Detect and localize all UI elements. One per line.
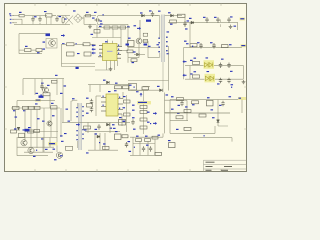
resistor R2 (25, 46, 32, 52)
wire sb bottom (88, 149, 118, 151)
cap C31 (86, 98, 93, 107)
wire sb v1 (95, 133, 105, 150)
diode D9 (157, 86, 162, 92)
blue llc mid (33, 150, 37, 157)
diode D17 (95, 133, 100, 138)
title block text Size/Number (206, 166, 233, 167)
ground primary minus (88, 24, 92, 28)
resistor R45 (184, 127, 191, 130)
cap CX0 (31, 16, 34, 25)
wire lm link (162, 133, 164, 137)
wire E line (14, 22, 17, 24)
resistor R54 (123, 96, 130, 103)
cap C24 (219, 59, 224, 68)
resistor R33 (34, 129, 40, 132)
resistor R11 (112, 26, 130, 29)
wire lm top (130, 137, 163, 143)
cap CX1 (34, 16, 42, 22)
cap C23 (210, 42, 216, 48)
resistor R36 (103, 143, 110, 149)
bridge rectifier BD1 (73, 10, 82, 22)
wire lm bottom (130, 154, 160, 156)
wire t2 top (72, 100, 77, 101)
label br (204, 135, 205, 136)
pin 1 arrow (92, 44, 103, 47)
label U3 (108, 90, 117, 92)
resistor R30 (51, 103, 58, 109)
wire ic2 left bus (96, 96, 101, 116)
zener D18 (212, 117, 228, 126)
wire lr rail top (166, 94, 245, 133)
cap C32 (86, 107, 93, 114)
resistor R49 (155, 152, 162, 155)
wire out vert x190 (189, 66, 191, 80)
varistor RV1 (62, 16, 67, 25)
resistor R5 (52, 80, 67, 86)
wire IC1 bottom pins (107, 61, 115, 68)
bottom AC rail (14, 23, 70, 25)
resistor R42 (192, 101, 199, 106)
resistor R32 (28, 127, 34, 133)
cap C20 (214, 17, 220, 23)
wire out rail 2 (184, 44, 247, 79)
cap C6 (91, 30, 101, 35)
wire llc h2 (17, 146, 54, 148)
cap C21 (227, 16, 236, 26)
cap C7 (67, 52, 80, 56)
cap C44 (131, 119, 151, 125)
wire drop x121 (120, 29, 122, 43)
cap C26 (217, 78, 222, 85)
part lm right (168, 140, 175, 148)
wire lm v (133, 137, 155, 155)
pin 3 arrow (92, 52, 103, 55)
wire fb bottom (131, 87, 159, 91)
pin 2 arrow (92, 48, 103, 51)
cap C42 (142, 146, 145, 152)
border zone tick marks (5, 4, 247, 172)
label vcc1 (184, 28, 188, 41)
wire IC1 top pin b (112, 41, 114, 44)
wire bias left drop (22, 79, 24, 95)
wire N line (14, 19, 22, 24)
title block text Date/Sheet (206, 170, 229, 171)
resistor R21 (193, 58, 200, 65)
part sb far right (125, 141, 130, 148)
blue lr2 (176, 129, 179, 130)
wire low rail 2 (85, 131, 120, 133)
diode D7 (168, 12, 173, 17)
IC U1 PWM controller (103, 44, 118, 61)
wire drop x113 (112, 29, 114, 38)
net arrow rm2 (147, 122, 157, 125)
wire r2 (19, 49, 36, 51)
wire lr bottom (170, 126, 215, 133)
transistor Q9 (53, 133, 67, 160)
wire fb low (128, 80, 169, 82)
wire u3 right (122, 92, 123, 126)
aux cluster resistor R16 (126, 44, 148, 53)
part sb right (115, 131, 122, 140)
winding W1 (66, 101, 72, 121)
wire grid col c (25, 108, 61, 152)
pin 4 stub (98, 55, 103, 57)
pin 7 stub (117, 53, 121, 55)
IC U1 inner text (107, 51, 113, 52)
wire llc bottom (17, 155, 48, 157)
resistor R50 (132, 105, 147, 109)
resistor R20 (222, 44, 232, 47)
ground out1 (229, 25, 233, 29)
resistor R18 (115, 83, 122, 89)
pin 6 stub (117, 49, 122, 51)
snubber diode D6 (140, 12, 144, 17)
U3 pin 2 (101, 101, 106, 103)
resistor R48 (152, 135, 160, 139)
transformer T1 secondary winding (157, 31, 170, 54)
wire Q1 source (128, 33, 159, 58)
resistor R17 (142, 87, 149, 90)
wire bridge plus (80, 16, 96, 25)
schottky D12 (205, 71, 216, 82)
sheet border frame (5, 4, 247, 172)
cap C43 (146, 145, 152, 152)
wire ic bottom drop b (115, 61, 118, 71)
diode D13 (103, 80, 109, 84)
wire bridge minus (84, 23, 96, 25)
resistor R15 (178, 14, 186, 17)
transistor Q8 (28, 138, 44, 153)
resistor R27 (23, 106, 29, 111)
inductor L3 crossed choke (65, 16, 73, 25)
resistor R35 (84, 126, 91, 131)
part right of U3 (119, 117, 126, 125)
wire grid col b (31, 110, 37, 149)
wire aux low rail (88, 84, 130, 86)
net arrow fb up (136, 91, 142, 96)
wire lr rail mid (165, 112, 230, 114)
resistor R22 (193, 71, 200, 78)
resistor R9 (83, 43, 90, 46)
part lr mid (207, 97, 214, 106)
aux wire (128, 53, 145, 58)
cap C22 (197, 42, 203, 48)
cap CX2 (55, 16, 61, 22)
wire out rail 4 (185, 78, 244, 80)
resistor R47 (145, 136, 151, 142)
net arrow grid (42, 121, 52, 127)
resistor R23 (186, 43, 197, 47)
transformer T2 left winding (76, 103, 78, 148)
resistor R53 (133, 126, 147, 130)
resistor R26 (13, 106, 20, 111)
wire rm vert (164, 93, 166, 134)
wire d10 drop (189, 23, 191, 42)
cap C11 (40, 84, 43, 90)
wire bias mid (35, 79, 63, 96)
aux cluster diode D8 (133, 51, 139, 55)
wire aux low drops (90, 85, 100, 92)
wire fb cluster top (128, 91, 148, 135)
wire drop x97 (96, 24, 98, 37)
U3 pin 5 (118, 97, 123, 99)
U3 pin 3 (101, 105, 106, 107)
resistor R10 (120, 26, 126, 29)
fuse F1 (19, 12, 24, 17)
MOSFET Q1 (134, 20, 152, 44)
cap C8 (84, 52, 91, 56)
wire br stub (193, 138, 232, 142)
wire choke to CX2 (52, 15, 57, 17)
resistor R52 (132, 117, 147, 121)
resistor R41 (176, 113, 183, 119)
wire Q1 drain (143, 41, 160, 58)
cap C19 (203, 17, 209, 23)
wire snub top (19, 33, 50, 35)
label T1 (158, 11, 161, 12)
diode D10 (189, 18, 194, 24)
wire snub bottom (19, 53, 42, 55)
wire rm v2 (186, 100, 188, 120)
net label FB highlight (137, 101, 151, 104)
pin 8 stub (117, 57, 121, 59)
transistor heat part (128, 38, 135, 47)
resistor R44 (199, 109, 213, 117)
zener D14 (17, 127, 25, 130)
resistor R14 (170, 20, 177, 25)
schottky D11 (204, 57, 215, 68)
resistor R46 (136, 136, 142, 142)
cap C40 (178, 101, 184, 107)
diode D5 (100, 23, 110, 29)
wire r9 to ic (90, 43, 96, 45)
U3 pin 4 (101, 110, 106, 112)
wire out rail 3 (185, 65, 244, 67)
bulk cap C5 (92, 16, 102, 25)
node HV junction (94, 12, 104, 27)
transformer T2 right winding (82, 106, 84, 139)
wire r8 (74, 43, 84, 45)
wire left loop v (62, 43, 77, 66)
ground out right (231, 80, 245, 88)
wire under q1 (127, 58, 129, 63)
cap C9 top (149, 10, 154, 17)
MOSFET Q1 gate wire (139, 20, 141, 38)
wire T1 top feed (155, 15, 160, 17)
net arrow rm1 (147, 112, 157, 115)
transistor Q6 (39, 85, 50, 98)
wire low drops (88, 122, 110, 133)
wire row y27 (98, 27, 130, 29)
wire HV+ rail (98, 15, 159, 17)
cap C27 (227, 78, 233, 85)
diode D16 (107, 123, 113, 129)
wire CX1 top (38, 16, 47, 25)
wire bias rail (23, 78, 64, 80)
thermistor RT1 (86, 12, 91, 17)
blue lr1 (171, 109, 174, 110)
sheet inner area (5, 4, 247, 172)
wire out rail 1 (168, 22, 238, 24)
cap C33 (95, 124, 101, 130)
blue label q5 (43, 42, 46, 50)
IC U3 standby controller (106, 94, 118, 116)
net label yellow lr (238, 97, 246, 100)
wire rail to cap (127, 24, 129, 50)
resistor R8 (62, 43, 74, 46)
resistor R43 (184, 106, 191, 112)
resistor R19 (123, 86, 130, 89)
sheet outer margin (0, 0, 250, 176)
inductor L1 common-mode choke (44, 11, 52, 24)
opto U2 (129, 84, 137, 91)
wire HV- rail (98, 23, 128, 25)
U3 pin 6 (118, 103, 123, 105)
wire after fuse (25, 15, 38, 17)
wire rm h1 (165, 99, 188, 101)
label T2 (60, 98, 89, 156)
wire loop h1 (62, 63, 96, 65)
wire llc h3 (24, 151, 53, 153)
wire rm h3 (170, 120, 188, 122)
node sb (99, 142, 100, 143)
wire IC1 right up (121, 43, 128, 51)
U3 pin 1 (101, 96, 106, 98)
wire across y37.5 (92, 37, 121, 39)
feedback vertical wire (168, 46, 170, 91)
cap C41 (219, 101, 225, 107)
wire lr right v (241, 100, 243, 113)
title block frame (204, 160, 247, 171)
node lm (134, 147, 135, 148)
comparator label (35, 93, 42, 102)
resistor R40 (171, 96, 184, 100)
transformer T2 core (79, 103, 81, 150)
net label highlight (48, 142, 58, 145)
sense resistor R12 (131, 59, 137, 63)
U3 pin 8 (118, 113, 122, 115)
node loop label (76, 67, 79, 69)
label out4 arrow (183, 73, 193, 76)
wire low rail (62, 121, 130, 123)
resistor R55 (123, 107, 131, 116)
net arrow llc (45, 149, 48, 150)
pin 5 stub (117, 45, 122, 47)
wire out right vertical (243, 66, 245, 80)
title block text Title (206, 162, 215, 163)
wire grid drop right (49, 93, 51, 108)
ground IC1 (109, 67, 113, 71)
resistor R51 (132, 110, 147, 114)
wire c20 drop (220, 19, 222, 27)
node out2 (190, 42, 193, 48)
wire ic bottom drop a (106, 65, 108, 70)
label out3 arrow (183, 60, 193, 63)
wire loop h2 (62, 67, 113, 71)
wire v +5v feed (60, 93, 63, 123)
blue lm (129, 151, 132, 152)
wire llc v (17, 137, 50, 155)
wire rm h2 (165, 112, 189, 114)
box startup outline (46, 39, 57, 49)
transistor Q7 (14, 128, 30, 146)
cap C25 (227, 63, 232, 72)
wire L line (14, 15, 19, 17)
net arrow low (68, 121, 126, 129)
resistor R31 (11, 130, 17, 133)
label low blue (112, 124, 115, 125)
wire fb cluster left (123, 95, 127, 132)
resistor R25 (43, 93, 50, 96)
wire grid bus (11, 107, 60, 109)
wire to bridge (57, 15, 70, 17)
wire lr v1 (217, 100, 219, 126)
connector J1 AC input (9, 13, 14, 23)
wire aux v (183, 16, 189, 27)
wire llc h1 (17, 133, 57, 137)
resistor R29 (35, 103, 41, 109)
resistor R37 (122, 135, 128, 138)
resistor R3 (36, 49, 42, 54)
startup transistor Q5 (46, 34, 66, 47)
wire grid drop left (16, 101, 18, 108)
label U1 (105, 41, 108, 42)
label grid blue1 (37, 115, 55, 119)
wire grid col a (15, 110, 26, 143)
resistor R28 (29, 106, 35, 109)
wire grid top (17, 100, 55, 102)
wire out1 end (238, 18, 246, 31)
bias arrow (41, 75, 58, 84)
wire snub left drop (18, 34, 20, 54)
transformer T1 primary winding (158, 16, 160, 58)
U3 pin 7 (118, 108, 123, 110)
transformer T1 core (162, 15, 164, 93)
wire aux top (165, 15, 182, 17)
wire IC1 top pin a (107, 40, 109, 44)
